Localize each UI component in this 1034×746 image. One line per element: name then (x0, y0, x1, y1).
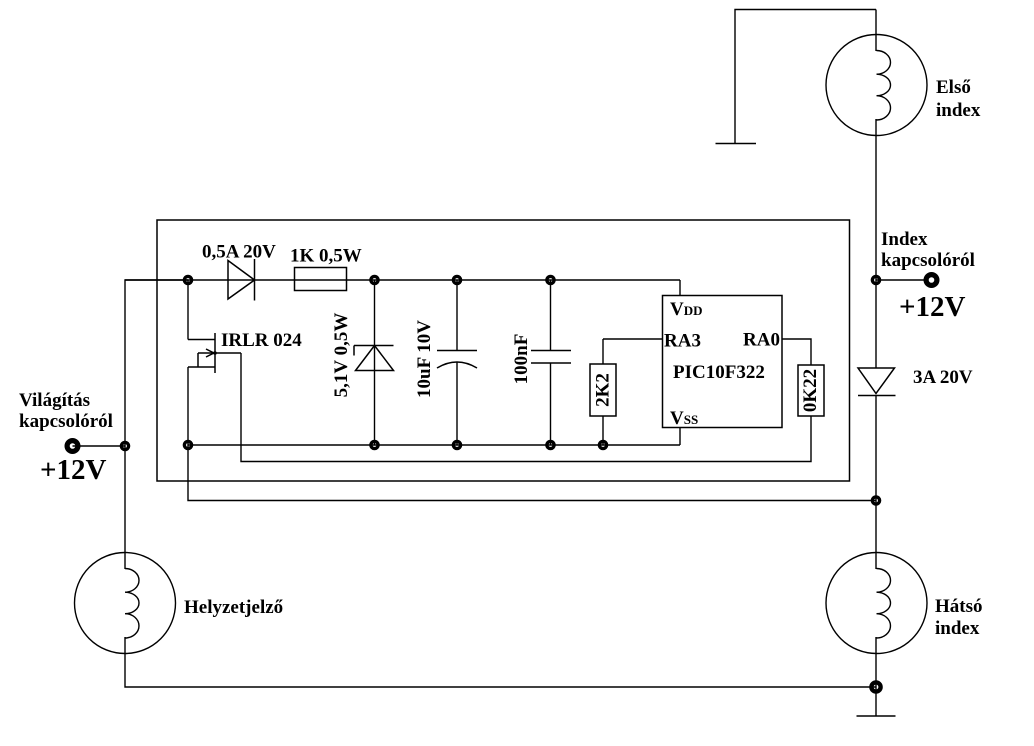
wire VSS (679, 428, 681, 446)
wire R2 top (602, 339, 604, 364)
wire bottom return (125, 637, 876, 687)
svg-text:VSS: VSS (670, 408, 698, 429)
node zener top (371, 276, 378, 283)
svg-text:PIC10F322: PIC10F322 (673, 362, 765, 383)
svg-text:Helyzetjelző: Helyzetjelző (184, 597, 283, 618)
wire drain (187, 280, 189, 340)
svg-text:RA3: RA3 (664, 331, 701, 352)
svg-text:index: index (936, 100, 981, 121)
svg-text:+12V: +12V (899, 291, 966, 323)
svg-text:0,5A 20V: 0,5A 20V (202, 242, 276, 263)
node gnd r2 (599, 441, 606, 448)
svg-text:kapcsolóról: kapcsolóról (881, 250, 975, 271)
svg-text:VDD: VDD (670, 299, 703, 320)
svg-text:IRLR 024: IRLR 024 (221, 330, 302, 351)
resistor R1 1K 0,5W (295, 268, 347, 291)
wire gate sense line (188, 445, 876, 501)
wire index rail lower (875, 396, 877, 570)
wire zener vertical (374, 280, 376, 445)
wire index rail mid (875, 119, 877, 368)
node gnd zener (371, 441, 378, 448)
wire terminal to left rail (73, 445, 126, 447)
node gate tap (872, 497, 879, 504)
svg-text:Index: Index (881, 229, 928, 250)
IC U1 PIC10F322 (663, 296, 783, 428)
wire to index terminal (876, 279, 924, 281)
svg-text:index: index (935, 618, 980, 639)
svg-text:3A 20V: 3A 20V (913, 367, 973, 388)
node gnd cap2 (547, 441, 554, 448)
wire source sense (241, 353, 811, 462)
svg-text:Világítás: Világítás (19, 390, 90, 411)
node gnd cap1 (453, 441, 460, 448)
diode D3 3A 20V (858, 368, 896, 396)
zener D2 5,1V 0,5W (354, 346, 394, 371)
capacitor C1 10uF 10V (437, 280, 477, 445)
wire lamp L2 to ground node (875, 637, 877, 687)
label Első index (936, 77, 981, 121)
node cap1 top (453, 276, 460, 283)
enclosure box (157, 220, 850, 481)
lamp L2 Hátsó index (826, 553, 927, 654)
resistor R2 2K2 (590, 364, 616, 416)
diode D1 0,5A 20V (228, 259, 255, 301)
wire GND bus (188, 444, 680, 446)
capacitor C2 100nF (531, 280, 571, 445)
svg-text:RA0: RA0 (743, 330, 780, 351)
node gnd drain (184, 441, 191, 448)
svg-text:5,1V 0,5W: 5,1V 0,5W (331, 313, 352, 398)
node index tap (872, 276, 879, 283)
wire left rail (125, 280, 188, 569)
wire index rail top (875, 10, 877, 52)
svg-text:Hátsó: Hátsó (935, 596, 983, 617)
svg-text:Első: Első (936, 77, 971, 98)
wire RA0 (782, 339, 811, 365)
svg-text:10uF 10V: 10uF 10V (414, 320, 435, 398)
node ground junction (871, 682, 880, 691)
svg-text:100nF: 100nF (511, 334, 532, 385)
terminal Világítás kapcsolóról (67, 441, 78, 452)
svg-text:kapcsolóról: kapcsolóról (19, 411, 113, 432)
wire VDD (679, 280, 681, 296)
lamp L3 Helyzetjelző (75, 553, 176, 654)
wire +12V bus (125, 279, 680, 281)
label Hátsó index (935, 596, 983, 639)
node left rail (121, 442, 128, 449)
resistor R3 0K22 (798, 365, 824, 416)
wire R2 bottom (602, 416, 604, 445)
svg-text:+12V: +12V (40, 454, 107, 486)
label Világítás kapcsolóról (19, 390, 113, 432)
svg-text:2K2: 2K2 (593, 373, 614, 407)
node bus drain (184, 276, 191, 283)
transistor Q1 IRLR 024 (188, 333, 241, 373)
wire gate down (187, 367, 189, 445)
svg-text:1K 0,5W: 1K 0,5W (290, 246, 362, 267)
wire RA3 (603, 338, 663, 340)
svg-text:0K22: 0K22 (800, 369, 821, 412)
ground bottom (857, 687, 896, 716)
wire top net (735, 10, 876, 144)
terminal Index kapcsolóról (926, 275, 937, 286)
lamp L1 Első index (826, 35, 927, 136)
node cap2 top (547, 276, 554, 283)
ground top (716, 143, 757, 145)
label Index kapcsolóról (881, 229, 975, 271)
